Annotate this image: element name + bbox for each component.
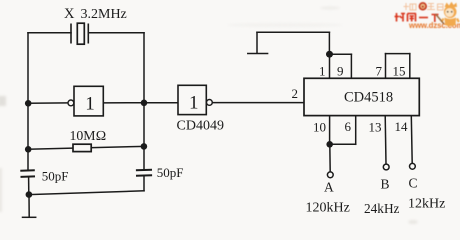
wire top loop right segment	[88, 32, 144, 34]
svg-text:B: B	[381, 177, 390, 192]
wire bracket pins 1 and 9	[330, 54, 352, 78]
svg-text:12kHz: 12kHz	[408, 197, 445, 212]
label 12kHz	[408, 197, 445, 212]
junction node bottom left	[26, 191, 33, 198]
pin label 9	[337, 64, 344, 79]
wire node to U1b and pin2 of U2	[144, 102, 304, 104]
pin label 7	[376, 64, 383, 79]
ground left	[23, 216, 36, 218]
wire pin13 to terminal B	[384, 115, 387, 164]
pin label 2	[292, 86, 299, 101]
ground top	[248, 53, 268, 55]
wire bottom rail	[29, 191, 144, 195]
junction node left rail at resistor row	[25, 146, 32, 153]
svg-text:CD4518: CD4518	[344, 90, 393, 106]
wire top loop left segment	[28, 32, 71, 34]
red badge	[419, 2, 427, 10]
svg-text:14: 14	[395, 119, 409, 134]
wire inverter U1a output	[103, 102, 144, 104]
pin label 13	[369, 120, 382, 135]
svg-text:9: 9	[337, 64, 344, 79]
label CD4049	[177, 119, 224, 134]
pin label 14	[395, 119, 409, 134]
mascot	[436, 2, 459, 26]
label 50pF C1	[42, 169, 69, 184]
capacitor C2 50pF	[136, 170, 152, 176]
svg-text:X: X	[64, 6, 75, 22]
svg-text:3.2MHz: 3.2MHz	[81, 7, 127, 22]
junction node on left rail at U1a input	[25, 100, 32, 107]
junction node top at pins 1-9	[326, 51, 333, 58]
pin label 15	[393, 64, 406, 79]
svg-text:2: 2	[292, 86, 299, 101]
label X 3.2MHz	[64, 6, 127, 22]
svg-text:CD4049: CD4049	[177, 119, 224, 134]
svg-text:24kHz: 24kHz	[364, 201, 400, 216]
svg-text:6: 6	[345, 119, 352, 134]
label node B	[381, 177, 390, 192]
label node C	[409, 176, 418, 191]
wire bracket pins 7 and 15	[386, 54, 410, 79]
wire bracket pins 10 and 6	[330, 115, 356, 144]
label node A	[324, 180, 334, 195]
svg-text:15: 15	[393, 64, 406, 79]
crystal X 3.2MHz	[71, 23, 88, 44]
faint outlined row	[404, 3, 444, 10]
label 50pF C2	[157, 165, 184, 180]
svg-text:C: C	[409, 176, 418, 191]
wire pin14 to terminal C	[410, 115, 413, 163]
red CJK text (vector strokes)	[395, 13, 439, 22]
svg-text:1: 1	[85, 94, 95, 115]
wire left rail lower	[28, 177, 30, 195]
svg-text:50pF: 50pF	[157, 165, 184, 180]
wire pin10 node to terminal A	[329, 144, 331, 172]
svg-text:50pF: 50pF	[42, 169, 69, 184]
label 10M ohm	[70, 128, 107, 143]
wire right rail lower	[143, 176, 145, 191]
svg-text:10: 10	[313, 120, 326, 135]
junction node on right rail at U1a output	[141, 100, 148, 107]
svg-text:10MΩ: 10MΩ	[70, 128, 107, 143]
wire ground stub left	[28, 195, 30, 217]
wire ground stub top	[256, 32, 258, 53]
wire top net to pin 1-9	[257, 32, 329, 54]
label 120kHz	[306, 201, 350, 216]
svg-text:1: 1	[189, 93, 199, 114]
wire right rail upper	[143, 33, 145, 170]
wire left rail upper	[27, 33, 29, 171]
terminal A	[327, 172, 333, 178]
junction node at pin 10 bracket	[326, 141, 333, 148]
pin label 6	[345, 119, 352, 134]
wire inverter U1a input	[28, 102, 68, 104]
svg-text:120kHz: 120kHz	[306, 201, 350, 216]
svg-text:13: 13	[369, 120, 382, 135]
IC U2 CD4518	[304, 78, 419, 115]
svg-text:1: 1	[319, 64, 326, 79]
wire 10M ohm row	[28, 146, 144, 149]
svg-text:A: A	[324, 180, 334, 195]
label 24kHz	[364, 201, 400, 216]
pin label 10	[313, 120, 326, 135]
resistor R 10M ohm	[73, 144, 91, 151]
pin label 1	[319, 64, 326, 79]
terminal B	[383, 164, 389, 170]
terminal C	[410, 163, 416, 169]
junction node right rail at resistor row	[141, 143, 148, 150]
svg-text:7: 7	[376, 64, 383, 79]
capacitor C1 50pF	[20, 170, 35, 177]
inverter U1a (CD4049 gate, output bubble left)	[68, 86, 103, 116]
inverter U1b (CD4049 gate, output bubble right)	[178, 85, 212, 114]
